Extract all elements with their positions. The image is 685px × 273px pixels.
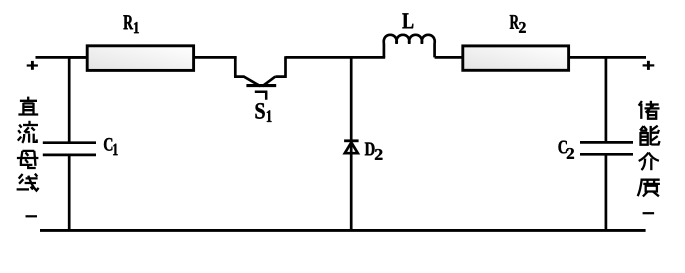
label D2: [365, 143, 383, 160]
capacitor C1 top plate: [43, 141, 96, 144]
label C2: [559, 141, 574, 159]
transistor S1 bar: [246, 84, 276, 87]
label R1: [123, 15, 138, 33]
terminal - left: [26, 215, 38, 217]
wire bottom bus: [40, 229, 646, 232]
node label left: hanzi ZHI (direct): [18, 97, 38, 115]
terminal + left: [27, 64, 38, 66]
node label right: hanzi ZHI (substance): [638, 180, 660, 197]
node label right: hanzi JIE (medium): [639, 153, 659, 171]
transistor S1 gate bar and lead: [255, 92, 268, 100]
wire C1 to bottom bus: [68, 156, 71, 230]
node label left: hanzi MU (bus/mother): [17, 151, 39, 168]
inductor L: [384, 35, 435, 58]
wire top-left from + terminal to node A: [36, 56, 87, 59]
label C1: [104, 138, 118, 155]
capacitor C2 top plate: [580, 141, 633, 144]
node A vertical branch to capacitor C1: [68, 56, 71, 141]
wire R1 to transistor S1: [195, 56, 237, 59]
wire S1 emitter lead right: [262, 56, 286, 86]
diode D2 cathode bar: [344, 139, 359, 142]
node label right: hanzi NENG (energy): [640, 126, 659, 145]
label L: [402, 13, 413, 28]
label R2: [510, 15, 526, 33]
label S1: [256, 103, 272, 122]
wire R2 to + terminal right: [569, 56, 646, 59]
wire node A to resistor R1: [69, 56, 87, 59]
node B vertical branch to diode D2: [350, 56, 353, 230]
node label right: hanzi CHU (store): [639, 101, 660, 119]
terminal + right: [643, 64, 655, 66]
diode D2 triangle: [345, 142, 358, 153]
wire S1 to node B (top wire passing D2 junction): [286, 56, 386, 59]
wire S1 collector lead left: [234, 56, 260, 86]
node C vertical branch to capacitor C2: [605, 56, 608, 141]
terminal - right: [643, 212, 655, 214]
node label left: hanzi LIU (flow): [18, 121, 38, 143]
capacitor C1 bottom plate: [43, 154, 96, 157]
resistor R2 body: [463, 46, 569, 70]
wire L to resistor R2: [435, 56, 463, 59]
resistor R1 body: [87, 46, 193, 71]
capacitor C2 bottom plate: [580, 153, 633, 156]
wire C2 to bottom bus: [605, 155, 608, 230]
node label left: hanzi XIAN (line): [17, 174, 39, 191]
